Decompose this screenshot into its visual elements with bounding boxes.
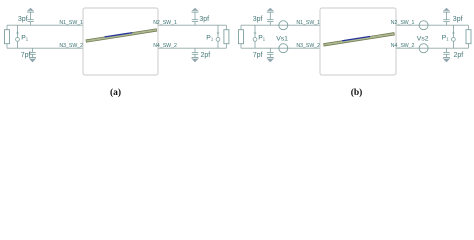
wire: (b) top-left horizontal [241,24,320,26]
svg-text:(a): (a) [110,87,121,98]
source Vs1 bottom circle (b) [279,44,288,53]
svg-text:2pf: 2pf [454,52,464,59]
capacitor 3pf (a) right with ground [191,8,199,25]
wire: (a) right edge vertical [225,25,227,48]
svg-text:2pf: 2pf [201,52,211,59]
MEMS switch beam image (b) [324,32,395,46]
wire: (b) top-right horizontal [396,24,469,26]
wire: (b) right edge vertical [468,25,470,48]
capacitor 2pf (a) right with ground [191,48,199,62]
S-parameter block box (a) [83,8,158,75]
wire: (a) left edge vertical [6,25,8,48]
wire: (b) bottom-left horizontal [241,47,320,49]
svg-text:N3_SW_2: N3_SW_2 [296,43,320,49]
capacitor 2pf (b) right with ground [443,48,451,62]
resistor: (b) right 50-ohm termination [466,30,471,44]
resistor: (a) left 50-ohm termination [5,30,10,44]
svg-text:3pf: 3pf [253,16,263,23]
port P1 (b) right [452,25,456,48]
source Vs2 top circle (b) [419,21,428,30]
capacitor 7pf (a) left with ground [29,48,37,62]
wire: (b) left edge vertical [240,25,242,48]
wire: (a) top-right horizontal [158,24,226,26]
svg-text:7pf: 7pf [253,52,263,59]
wire: (a) top-left horizontal [7,24,83,26]
svg-text:3pf: 3pf [453,16,463,23]
port P1 (b) left [253,25,257,48]
svg-text:3pf: 3pf [199,16,209,23]
svg-text:(b): (b) [351,87,363,98]
wire: (a) bottom-left horizontal [7,47,83,49]
svg-text:N1_SW_1: N1_SW_1 [296,20,320,26]
S-parameter block box (b) [320,8,396,75]
capacitor 3pf (a) left with ground [27,8,35,25]
source Vs2 bottom circle (b) [419,44,428,53]
capacitor 7pf (b) left with ground [266,48,274,62]
svg-text:N1_SW_1: N1_SW_1 [59,20,83,26]
wire: (b) bottom-right horizontal [396,47,469,49]
svg-text:Vs2: Vs2 [417,36,429,43]
wire: (a) bottom-right horizontal [158,47,226,49]
resistor: (a) right 50-ohm termination [224,30,229,44]
svg-text:3pf: 3pf [18,16,28,23]
port P1 (a) left [16,25,20,48]
svg-text:7pf: 7pf [21,52,31,59]
source Vs1 top circle (b) [279,21,288,30]
capacitor 3pf (b) left with ground [267,8,275,25]
port P1 (a) right [216,25,220,48]
svg-text:N3_SW_2: N3_SW_2 [59,43,83,49]
resistor: (b) left 50-ohm termination [239,30,244,44]
MEMS switch beam image (a) [86,28,157,42]
capacitor 3pf (b) right with ground [443,8,451,25]
svg-text:Vs1: Vs1 [276,36,288,43]
